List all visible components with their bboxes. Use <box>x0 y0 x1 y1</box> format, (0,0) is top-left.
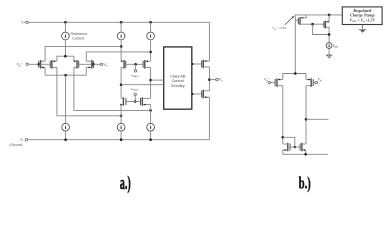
ground arrow under charge pump box <box>359 25 366 33</box>
wire current source 3 down right cascode column <box>150 40 152 61</box>
annotation arrow VG <box>285 16 295 25</box>
wire right rail down to output PMOS source <box>208 22 210 61</box>
current source 2 <box>117 32 125 40</box>
transistor N2 mirror <box>300 143 306 152</box>
transistor M3 <box>74 60 79 69</box>
current source 5 <box>117 123 125 131</box>
transistor M2 <box>50 60 57 69</box>
wire M8 drain down to current source 6 <box>150 105 152 124</box>
wire M7 gate to M8 gate <box>126 101 141 103</box>
junction right column with M4 drain line <box>149 51 152 54</box>
svg-text:VBIAS1: VBIAS1 <box>131 73 140 78</box>
junction right column to class-AB box stub <box>149 79 152 82</box>
svg-text:Class AB: Class AB <box>170 74 186 78</box>
wire M1 drain up and across to left cascode column <box>45 46 121 61</box>
transistor M1 <box>39 60 45 69</box>
svg-text:Vin-: Vin- <box>103 62 108 67</box>
svg-text:a.): a.) <box>120 174 131 194</box>
wire Q1 source up to input line <box>304 15 306 18</box>
svg-text:VG: VG <box>272 26 276 31</box>
junction right lower column with M3 tail <box>149 109 152 112</box>
wire M4 gate to Vin- terminal <box>93 63 100 65</box>
block Regulated Charge Pump <box>342 7 382 25</box>
transistor Q1 <box>298 17 304 25</box>
wire I_bias to ground <box>328 49 330 56</box>
wire current source 4 to ground rail <box>65 131 67 140</box>
wire Q2 drain down to I_bias <box>328 27 330 43</box>
svg-text:Circuitry: Circuitry <box>171 84 185 88</box>
svg-text:V+: V+ <box>21 21 25 25</box>
junction M10 gate on box edge <box>191 93 193 95</box>
junction VBIAS2 gate line <box>134 100 137 103</box>
svg-text:(Ground): (Ground) <box>9 143 22 147</box>
label Reference Current <box>71 32 88 41</box>
junction Q2 source on input line <box>328 14 331 17</box>
wire M1 gate to M2 gate <box>39 63 51 65</box>
transistor M5 cascode <box>121 60 126 69</box>
svg-text:VBIAS2: VBIAS2 <box>131 87 140 92</box>
wire M7 drain down to current source 5 <box>120 105 122 124</box>
junction M9 gate on box edge <box>191 63 193 65</box>
wire M2 source tail down and right to left lower column <box>57 67 121 115</box>
svg-text:Control: Control <box>172 79 184 83</box>
wire quad lower bridge <box>45 67 86 75</box>
wire P2 drain tail down to N2 <box>305 86 307 144</box>
wire N1 gate to N2 gate <box>290 146 300 148</box>
wire V+ terminal to P1 gate <box>271 82 276 84</box>
junction left column with input-pair drain line <box>120 45 123 48</box>
junction quad lower bridge center <box>64 74 67 77</box>
junction output tap on P2 tail <box>305 118 308 121</box>
svg-text:= 1.5V: = 1.5V <box>278 26 287 30</box>
current source 3 <box>147 32 155 40</box>
transistor M8 <box>141 97 151 106</box>
wire Vin+ to M1 gate <box>28 63 39 65</box>
transistor Q2 <box>324 21 329 29</box>
node Vin+ input terminal <box>17 62 29 67</box>
junction left lower column with M2 tail <box>120 115 123 118</box>
wire M5 gate to M6 gate <box>126 63 143 65</box>
wire M9 drain to M10 drain (output node) <box>208 67 210 91</box>
junction common node to column <box>294 72 297 75</box>
wire right column to box <box>151 79 164 81</box>
transistor M9 output PMOS <box>202 60 210 69</box>
wire left column to box <box>121 84 164 86</box>
node VBIAS2 terminal <box>131 87 140 96</box>
transistor P2 input <box>306 78 313 87</box>
svg-text:Current: Current <box>72 37 84 41</box>
wire Q1 drain to Q2 gate <box>304 23 324 25</box>
wire M4 drain up and across to right cascode column <box>86 52 150 61</box>
junction Q2 drain and tie <box>328 33 331 36</box>
wire M3 source tail down and right to right lower column <box>74 67 151 110</box>
wire inner pair common-source bridge <box>57 56 74 61</box>
wire current source 5 to ground rail <box>120 131 122 140</box>
node V- ground terminal <box>9 138 27 147</box>
wire P2 gate to V- terminal <box>313 82 315 84</box>
junction N2 source on bottom rail <box>304 153 307 156</box>
wire reference source to inner pair common node <box>64 40 66 56</box>
junction ground rail right <box>149 138 152 141</box>
current source I_ref (Reference Current) <box>62 32 70 40</box>
wire output node to Vo terminal <box>209 79 215 81</box>
svg-text:Ibias: Ibias <box>333 44 339 49</box>
junction VBIAS1 gate line <box>134 63 137 66</box>
wire mirror bottom rail <box>283 150 328 154</box>
wire gate line to VBIAS1 terminal <box>135 64 137 69</box>
ground under I_bias <box>326 55 332 58</box>
wire center tail to current source 4 <box>65 75 67 123</box>
junction mirror gate line <box>294 146 297 149</box>
transistor M6 cascode <box>143 60 151 69</box>
svg-text:Vin-: Vin- <box>318 78 323 83</box>
node VBIAS1 terminal <box>131 70 140 78</box>
junction output node <box>208 78 211 81</box>
wire VBIAS2 terminal to gate line <box>134 96 136 102</box>
transistor M10 output NMOS <box>202 90 210 99</box>
junction ground rail left <box>64 138 67 141</box>
node V- input of charge-pump stage <box>315 78 323 84</box>
current source I_bias <box>326 43 332 49</box>
wire output tap to right <box>306 118 329 120</box>
svg-text:Vin+: Vin+ <box>17 62 23 67</box>
wire Q1 gate hook and long column to diff pair <box>295 15 298 74</box>
wire rail to reference current source <box>64 22 66 32</box>
junction inner-pair bridge center <box>64 55 67 58</box>
svg-text:Reference: Reference <box>71 32 88 36</box>
wire top V+ rail <box>28 21 209 23</box>
label VG = 1.5V <box>272 26 286 31</box>
wire gate-drain tie of Q2 <box>313 24 330 34</box>
wire charge-pump input line <box>295 14 342 16</box>
junction on V+ rail at reference source <box>64 21 67 24</box>
svg-text:b.): b.) <box>299 174 311 193</box>
node Vo output terminal <box>216 78 223 83</box>
svg-text:Charge Pump: Charge Pump <box>350 13 376 18</box>
junction Q1 drain / Q2 gate tie <box>311 23 314 26</box>
wire M3 gate to M4 gate <box>79 63 94 65</box>
wire bottom V- rail <box>28 139 210 141</box>
wire right column M6 to M8 <box>150 67 152 98</box>
current source 6 <box>147 123 155 131</box>
transistor M4 <box>86 60 93 69</box>
wire current source 6 to ground rail <box>150 131 152 140</box>
junction M1 gate <box>38 63 41 66</box>
current source 4 <box>62 123 70 131</box>
wire P1 drain tail down to N1 <box>282 86 284 144</box>
wire rail to current source 2 <box>120 22 122 32</box>
wire box to M9 gate <box>192 63 202 65</box>
junction ground rail center <box>120 138 123 141</box>
transistor N1 mirror <box>283 143 290 152</box>
node V+ input of charge-pump stage <box>264 78 271 84</box>
wire rail to current source 3 <box>150 22 152 32</box>
transistor P1 input <box>275 78 283 87</box>
junction on V+ rail at right cascode column <box>149 21 152 24</box>
wire diff-pair common source node <box>283 74 306 80</box>
junction on V+ rail at left cascode column <box>120 21 123 24</box>
wire Q2 source up to input line <box>328 15 330 22</box>
junction left column to class-AB box upper-left stub <box>120 83 123 86</box>
wire M10 source down to ground rail <box>208 97 210 140</box>
wire mirror gate link <box>283 137 295 147</box>
node V+ terminal <box>21 21 28 25</box>
block Class AB Control Circuitry <box>164 47 192 109</box>
junction M4 gate <box>92 63 95 66</box>
wire left column M5 to M7 <box>120 67 122 98</box>
svg-text:V-: V- <box>20 138 23 142</box>
transistor M7 <box>120 97 126 106</box>
wire box to M10 gate <box>192 93 202 95</box>
node Vin- input terminal <box>100 62 108 67</box>
svg-text:Vo: Vo <box>219 78 223 83</box>
junction P1 tail to mirror gate link <box>282 136 285 139</box>
wire current source 2 down left cascode column <box>120 40 122 61</box>
